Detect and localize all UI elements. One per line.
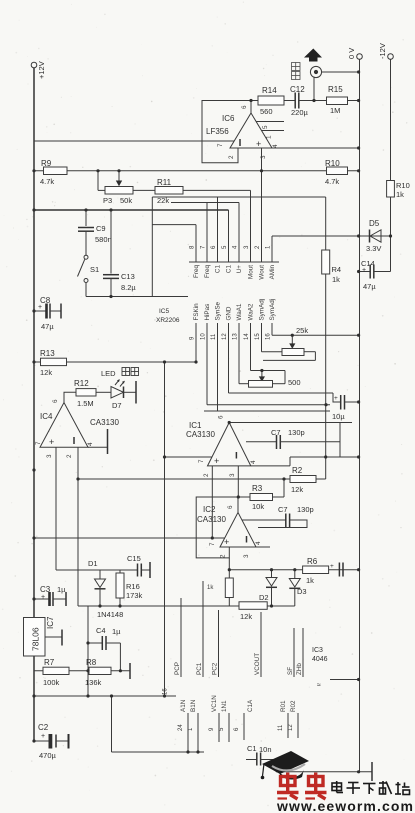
svg-text:LED: LED bbox=[101, 369, 116, 378]
svg-text:C1: C1 bbox=[247, 744, 257, 753]
svg-text:1.5M: 1.5M bbox=[77, 399, 94, 408]
svg-text:C13: C13 bbox=[121, 272, 135, 281]
svg-text:R16: R16 bbox=[126, 582, 140, 591]
svg-text:1M: 1M bbox=[330, 106, 340, 115]
svg-text:1N4148: 1N4148 bbox=[97, 610, 123, 619]
svg-text:R9: R9 bbox=[41, 159, 52, 168]
svg-text:B1N: B1N bbox=[190, 699, 197, 712]
svg-text:R10: R10 bbox=[325, 159, 340, 168]
svg-text:C2: C2 bbox=[38, 723, 49, 732]
svg-text:WaA1: WaA1 bbox=[236, 303, 243, 320]
svg-text:C3: C3 bbox=[40, 585, 51, 594]
svg-text:11: 11 bbox=[211, 333, 217, 340]
svg-text:1k: 1k bbox=[396, 190, 404, 199]
svg-text:D7: D7 bbox=[112, 401, 122, 410]
svg-text:7: 7 bbox=[217, 143, 224, 147]
svg-text:7: 7 bbox=[198, 459, 205, 463]
svg-text:47µ: 47µ bbox=[363, 282, 376, 291]
svg-text:R3: R3 bbox=[252, 484, 263, 493]
svg-text:FSKin: FSKin bbox=[193, 303, 200, 321]
svg-text:+: + bbox=[41, 594, 45, 601]
svg-text:6: 6 bbox=[218, 415, 225, 419]
svg-text:VC1N: VC1N bbox=[211, 695, 218, 712]
svg-text:7: 7 bbox=[35, 441, 42, 445]
svg-text:47µ: 47µ bbox=[41, 322, 54, 331]
svg-text:IC7: IC7 bbox=[46, 616, 55, 629]
svg-text:3: 3 bbox=[46, 454, 53, 458]
svg-text:1N1: 1N1 bbox=[221, 700, 228, 712]
svg-text:D2: D2 bbox=[259, 593, 269, 602]
svg-text:0 V: 0 V bbox=[347, 48, 356, 59]
svg-text:1k: 1k bbox=[207, 585, 214, 591]
svg-text:PCP: PCP bbox=[174, 662, 181, 675]
svg-text:8.2µ: 8.2µ bbox=[121, 283, 136, 292]
svg-text:IC4: IC4 bbox=[40, 412, 53, 421]
svg-text:ZHb: ZHb bbox=[296, 663, 303, 675]
svg-text:R10: R10 bbox=[396, 181, 410, 190]
svg-text:A1N: A1N bbox=[180, 699, 187, 712]
svg-text:15: 15 bbox=[255, 333, 261, 340]
svg-text:R13: R13 bbox=[40, 349, 55, 358]
svg-text:Freq: Freq bbox=[193, 265, 200, 278]
svg-text:HiPas: HiPas bbox=[204, 304, 211, 321]
svg-text:10µ: 10µ bbox=[332, 412, 345, 421]
svg-text:220µ: 220µ bbox=[291, 108, 309, 117]
svg-text:560: 560 bbox=[260, 107, 273, 116]
svg-text:≈: ≈ bbox=[317, 682, 321, 689]
svg-text:R8: R8 bbox=[86, 658, 97, 667]
svg-text:13: 13 bbox=[233, 333, 239, 340]
svg-text:2: 2 bbox=[220, 554, 227, 558]
svg-text:24: 24 bbox=[178, 724, 184, 731]
svg-text:AMin: AMin bbox=[269, 265, 276, 280]
svg-text:470µ: 470µ bbox=[39, 751, 57, 760]
svg-text:14: 14 bbox=[244, 333, 250, 340]
svg-text:7: 7 bbox=[209, 542, 216, 546]
svg-text:78L06: 78L06 bbox=[31, 627, 41, 651]
svg-text:IC1: IC1 bbox=[189, 421, 202, 430]
svg-text:16: 16 bbox=[266, 333, 272, 340]
svg-text:VCOUT: VCOUT bbox=[254, 653, 261, 675]
svg-text:R6: R6 bbox=[307, 557, 318, 566]
svg-text:+: + bbox=[224, 537, 229, 547]
svg-text:4.7k: 4.7k bbox=[40, 177, 54, 186]
svg-text:PC2: PC2 bbox=[212, 662, 219, 675]
svg-text:C12: C12 bbox=[290, 85, 305, 94]
svg-text:C1: C1 bbox=[215, 265, 222, 274]
svg-text:12: 12 bbox=[222, 333, 228, 340]
svg-text:Mout: Mout bbox=[248, 265, 255, 279]
svg-text:3: 3 bbox=[229, 473, 236, 477]
svg-text:PC1: PC1 bbox=[196, 662, 203, 675]
svg-text:IC2: IC2 bbox=[203, 505, 216, 514]
svg-text:130p: 130p bbox=[297, 505, 314, 514]
svg-text:4046: 4046 bbox=[312, 656, 328, 663]
svg-text:2: 2 bbox=[228, 155, 235, 159]
svg-text:1: 1 bbox=[266, 135, 273, 139]
svg-text:P3: P3 bbox=[103, 196, 112, 205]
svg-text:580n: 580n bbox=[95, 235, 112, 244]
svg-text:U+: U+ bbox=[236, 265, 243, 274]
svg-text:D5: D5 bbox=[369, 219, 380, 228]
svg-text:+: + bbox=[41, 733, 45, 740]
svg-text:10k: 10k bbox=[252, 502, 264, 511]
svg-text:SF: SF bbox=[287, 667, 294, 675]
svg-text:CA3130: CA3130 bbox=[90, 418, 119, 427]
svg-text:Wout: Wout bbox=[259, 265, 266, 280]
svg-text:CA3130: CA3130 bbox=[197, 515, 226, 524]
svg-text:6: 6 bbox=[227, 505, 234, 509]
svg-text:S1: S1 bbox=[90, 265, 99, 274]
svg-text:3: 3 bbox=[243, 554, 250, 558]
svg-text:+: + bbox=[38, 304, 42, 311]
svg-text:4: 4 bbox=[87, 442, 94, 446]
svg-text:R2: R2 bbox=[292, 466, 303, 475]
svg-text:136k: 136k bbox=[85, 678, 102, 687]
svg-text:SymAdj: SymAdj bbox=[269, 299, 276, 321]
svg-text:C1: C1 bbox=[226, 265, 233, 274]
svg-text:XR2206: XR2206 bbox=[156, 317, 180, 324]
svg-text:12: 12 bbox=[288, 724, 294, 731]
svg-text:C15: C15 bbox=[127, 554, 141, 563]
svg-text:R4: R4 bbox=[332, 265, 342, 274]
svg-text:C1A: C1A bbox=[247, 699, 254, 712]
svg-text:1µ: 1µ bbox=[112, 627, 121, 636]
svg-text:SynSe: SynSe bbox=[215, 301, 222, 320]
svg-text:+: + bbox=[256, 139, 261, 149]
svg-text:5: 5 bbox=[262, 125, 269, 129]
svg-text:WaA2: WaA2 bbox=[248, 303, 255, 320]
svg-text:+: + bbox=[214, 456, 219, 466]
svg-text:1k: 1k bbox=[332, 275, 340, 284]
svg-text:LF356: LF356 bbox=[206, 127, 229, 136]
svg-text:+: + bbox=[334, 395, 338, 402]
svg-text:R02: R02 bbox=[290, 700, 297, 712]
svg-text:12k: 12k bbox=[40, 368, 52, 377]
svg-text:C7: C7 bbox=[278, 505, 288, 514]
svg-text:SymAdj: SymAdj bbox=[259, 299, 266, 321]
svg-text:130p: 130p bbox=[288, 428, 305, 437]
svg-text:12k: 12k bbox=[291, 485, 303, 494]
svg-text:25k: 25k bbox=[296, 326, 308, 335]
svg-text:IC3: IC3 bbox=[312, 647, 323, 654]
svg-text:100k: 100k bbox=[43, 678, 60, 687]
svg-text:R01: R01 bbox=[280, 700, 287, 712]
svg-text:16: 16 bbox=[163, 688, 169, 695]
svg-text:6: 6 bbox=[241, 105, 248, 109]
svg-text:+12V: +12V bbox=[37, 61, 46, 79]
svg-text:www.eeworm.com: www.eeworm.com bbox=[276, 798, 414, 813]
svg-text:-12V: -12V bbox=[378, 43, 387, 59]
svg-text:C7: C7 bbox=[271, 428, 281, 437]
svg-text:C4: C4 bbox=[96, 626, 106, 635]
svg-text:500: 500 bbox=[288, 378, 301, 387]
svg-text:11: 11 bbox=[278, 724, 284, 731]
svg-text:4: 4 bbox=[272, 144, 279, 148]
svg-text:+: + bbox=[330, 563, 334, 570]
svg-text:R12: R12 bbox=[74, 379, 89, 388]
svg-text:+: + bbox=[362, 267, 366, 274]
svg-text:4: 4 bbox=[255, 541, 262, 545]
svg-text:4.7k: 4.7k bbox=[325, 177, 339, 186]
svg-text:3.3V: 3.3V bbox=[366, 244, 381, 253]
svg-text:6: 6 bbox=[52, 399, 59, 403]
svg-text:R15: R15 bbox=[328, 85, 343, 94]
svg-text:10: 10 bbox=[201, 333, 207, 340]
svg-text:GND: GND bbox=[226, 306, 233, 320]
svg-text:173k: 173k bbox=[126, 591, 143, 600]
svg-text:Freq: Freq bbox=[204, 265, 211, 278]
svg-text:R11: R11 bbox=[157, 178, 172, 187]
svg-text:CA3130: CA3130 bbox=[186, 430, 215, 439]
svg-text:R7: R7 bbox=[44, 658, 55, 667]
svg-text:D1: D1 bbox=[88, 559, 98, 568]
svg-text:+: + bbox=[49, 437, 54, 447]
svg-text:1µ: 1µ bbox=[57, 585, 66, 594]
svg-text:IC6: IC6 bbox=[222, 114, 235, 123]
svg-text:2: 2 bbox=[66, 454, 73, 458]
svg-text:4: 4 bbox=[250, 460, 257, 464]
svg-text:1k: 1k bbox=[306, 576, 314, 585]
svg-text:12k: 12k bbox=[240, 612, 252, 621]
svg-text:R14: R14 bbox=[262, 86, 277, 95]
svg-text:50k: 50k bbox=[120, 196, 132, 205]
svg-text:D3: D3 bbox=[297, 587, 307, 596]
svg-text:3: 3 bbox=[260, 155, 267, 159]
svg-text:IC5: IC5 bbox=[159, 308, 170, 315]
svg-text:C9: C9 bbox=[96, 224, 106, 233]
svg-text:2: 2 bbox=[203, 473, 210, 477]
